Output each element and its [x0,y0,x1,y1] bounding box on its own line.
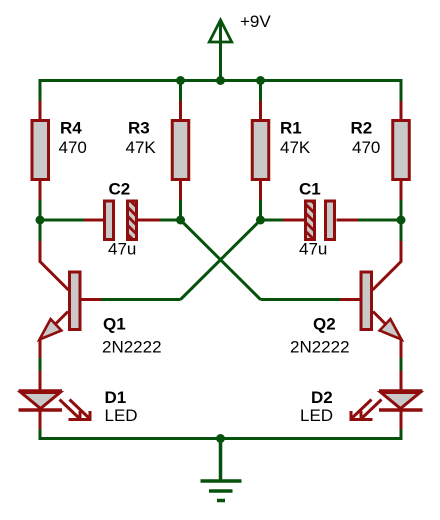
node A [36,216,45,225]
wire R1 to node C [259,200,262,220]
transistor Q1 [40,241,102,358]
wire rail to R2 [400,79,403,101]
wire node C to Q1 base (diagonal) [181,220,261,300]
wire rail to R3 [179,79,182,101]
power symbol +9V [209,20,231,81]
svg-text:C2: C2 [109,180,131,199]
wire rail to R1 [259,79,262,101]
node ground rail [216,434,225,443]
ground [201,439,242,501]
node top rail at R3 [176,76,185,85]
svg-text:Q2: Q2 [313,315,336,334]
wire bottom ground rail [39,437,403,440]
D2 light arrow 2 [350,400,372,420]
wire node D to Q2 collector [400,220,403,241]
node B [176,216,185,225]
wire R4 to node A [39,200,42,220]
svg-text:2N2222: 2N2222 [290,338,350,357]
svg-text:R3: R3 [128,119,150,138]
wire Q1 base horizontal [101,298,181,301]
wire R3 to node B [179,200,182,220]
svg-text:470: 470 [59,138,87,157]
svg-text:47u: 47u [108,240,136,259]
wire C1 to node D [358,219,401,222]
svg-text:2N2222: 2N2222 [102,338,162,357]
resistor R3 [172,101,189,200]
transistor Q2 [340,241,402,358]
wire node B to Q2 base (diagonal) [181,220,261,300]
capacitor C2 [84,201,160,240]
resistor R2 [393,101,410,200]
wire Q2 emitter to D2 [400,358,403,371]
svg-text:C1: C1 [299,180,321,199]
LED D2 [379,371,423,429]
wire node C to C1 [261,219,284,222]
node top rail at supply [216,76,225,85]
D1 light arrow 2 [70,400,92,420]
svg-text:47K: 47K [280,138,311,157]
resistor R1 [252,101,269,200]
svg-text:D2: D2 [311,388,333,407]
node top rail at R1 [256,76,265,85]
LED D1 [19,371,63,429]
svg-text:LED: LED [105,406,138,425]
wire D1 to ground rail [39,429,42,440]
svg-text:+9V: +9V [240,12,271,31]
node C [256,216,265,225]
D1 light arrow 1 [60,400,82,420]
svg-text:47u: 47u [299,240,327,259]
svg-text:R4: R4 [60,119,82,138]
capacitor C1 [283,201,358,240]
svg-text:D1: D1 [105,388,127,407]
svg-text:R2: R2 [351,119,373,138]
node D [397,216,406,225]
svg-text:R1: R1 [280,119,302,138]
wire rail to R4 [39,79,42,101]
resistor R4 [32,101,49,200]
wire D2 to ground rail [400,429,403,440]
wire node A to C2 [40,219,84,222]
wire C2 to node B [160,219,181,222]
wire top power rail [39,79,403,82]
wire Q2 base horizontal [261,298,341,301]
svg-text:47K: 47K [126,138,157,157]
svg-text:Q1: Q1 [103,315,126,334]
D2 light arrow 1 [360,400,382,420]
wire Q1 emitter to D1 [39,358,42,371]
svg-text:470: 470 [352,138,380,157]
svg-text:LED: LED [300,406,333,425]
wire node A to Q1 collector [39,220,42,241]
wire R2 to node D [400,200,403,220]
